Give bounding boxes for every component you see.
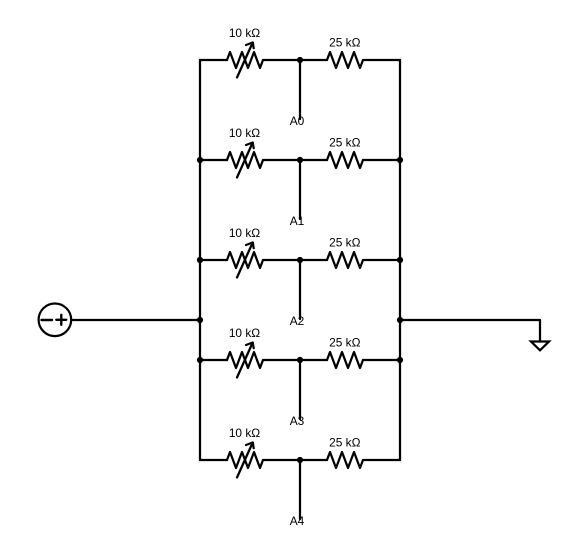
junction dot branch 1 left — [197, 157, 203, 163]
wire branch 3 right lead — [363, 359, 400, 361]
wire branch 3 left lead — [200, 359, 227, 361]
svg-text:A1: A1 — [290, 214, 305, 228]
svg-text:10 kΩ: 10 kΩ — [229, 226, 260, 240]
wire branch 4 left lead — [200, 459, 227, 461]
svg-text:A0: A0 — [290, 114, 305, 128]
potentiometer R3a 10 k — [227, 243, 263, 278]
wire branch 1 left lead — [200, 159, 227, 161]
junction dot source row left — [197, 317, 203, 323]
wire branch 2 middle — [263, 259, 327, 261]
wire branch 0 right lead — [363, 59, 400, 61]
junction dot branch 3 middle — [297, 357, 303, 363]
wire branch 3 middle — [263, 359, 327, 361]
junction dot ground row right — [397, 317, 403, 323]
svg-text:A3: A3 — [290, 414, 305, 428]
svg-text:10 kΩ: 10 kΩ — [229, 326, 260, 340]
potentiometer R1a 10 k — [227, 43, 263, 78]
ground — [531, 342, 549, 351]
svg-text:25 kΩ: 25 kΩ — [329, 136, 360, 150]
wire branch 0 middle — [263, 59, 327, 61]
wire from source to left bus — [71, 319, 200, 321]
wire from right bus to ground — [400, 320, 540, 342]
wire branch 2 right lead — [363, 259, 400, 261]
wire branch 0 left lead — [200, 59, 227, 61]
junction dot branch 1 right — [397, 157, 403, 163]
wire stub to node A2 — [299, 260, 301, 319]
potentiometer R5a 10 k — [227, 443, 263, 478]
junction dot branch 4 middle — [297, 457, 303, 463]
wire branch 1 right lead — [363, 159, 400, 161]
wire stub to node A0 — [299, 60, 301, 119]
resistor R4b 25 k — [327, 352, 363, 368]
junction dot branch 1 middle — [297, 157, 303, 163]
resistor R5b 25 k — [327, 452, 363, 468]
wire branch 4 right lead — [363, 459, 400, 461]
wire left bus — [199, 60, 201, 460]
potentiometer R4a 10 k — [227, 343, 263, 378]
resistor R2b 25 k — [327, 152, 363, 168]
svg-text:25 kΩ: 25 kΩ — [329, 36, 360, 50]
wire branch 2 left lead — [200, 259, 227, 261]
potentiometer R2a 10 k — [227, 143, 263, 178]
wire stub to node A3 — [299, 360, 301, 419]
svg-text:25 kΩ: 25 kΩ — [329, 336, 360, 350]
wire right bus — [399, 60, 401, 460]
svg-text:25 kΩ: 25 kΩ — [329, 436, 360, 450]
junction dot branch 2 left — [197, 257, 203, 263]
junction dot branch 3 left — [197, 357, 203, 363]
wire stub to node A4 — [299, 460, 301, 519]
svg-text:10 kΩ: 10 kΩ — [229, 26, 260, 40]
wire branch 4 middle — [263, 459, 327, 461]
junction dot branch 3 right — [397, 357, 403, 363]
wire stub to node A1 — [299, 160, 301, 219]
svg-text:A4: A4 — [290, 514, 305, 528]
svg-text:10 kΩ: 10 kΩ — [229, 426, 260, 440]
junction dot branch 0 middle — [297, 57, 303, 63]
junction dot branch 2 right — [397, 257, 403, 263]
junction dot branch 2 middle — [297, 257, 303, 263]
resistor R1b 25 k — [327, 52, 363, 68]
svg-text:10 kΩ: 10 kΩ — [229, 126, 260, 140]
voltage source V1 — [39, 304, 72, 337]
svg-text:A2: A2 — [290, 314, 305, 328]
wire branch 1 middle — [263, 159, 327, 161]
svg-text:25 kΩ: 25 kΩ — [329, 236, 360, 250]
resistor R3b 25 k — [327, 252, 363, 268]
